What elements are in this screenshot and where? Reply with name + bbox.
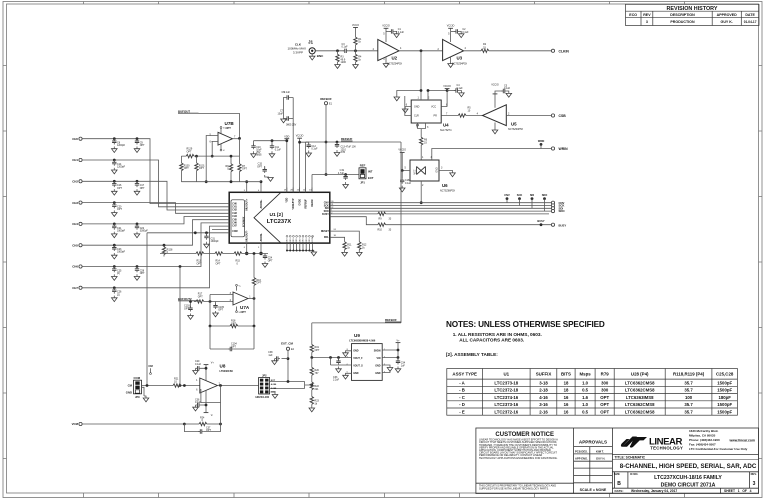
svg-text:NC7SZ66P5X: NC7SZ66P5X <box>440 190 455 193</box>
svg-text:DATE: DATE <box>745 13 755 17</box>
title cell <box>614 455 757 493</box>
svg-text:SDO: SDO <box>542 193 548 197</box>
capacitor C31 <box>204 233 219 248</box>
REFBUF wire to reference section <box>312 142 401 345</box>
svg-text:0.1uF: 0.1uF <box>504 87 511 90</box>
svg-text:3: 3 <box>753 481 756 487</box>
capacitor C1 <box>386 28 404 37</box>
wire J1 to C3 <box>315 50 344 52</box>
svg-text:35.7: 35.7 <box>684 380 693 385</box>
svg-text:REVISION HISTORY: REVISION HISTORY <box>667 6 718 12</box>
svg-text:VCCIO: VCCIO <box>382 25 390 28</box>
svg-text:OPT: OPT <box>206 429 211 432</box>
svg-text:CM: CM <box>148 364 153 368</box>
svg-text:CH0: CH0 <box>232 203 237 205</box>
svg-text:0805: 0805 <box>256 153 262 156</box>
wire U6 pin4 to WRIN <box>432 149 552 161</box>
svg-text:Wednesday, January 04, 2017: Wednesday, January 04, 2017 <box>631 489 677 493</box>
net label BUSY <box>537 219 544 226</box>
approvals block <box>575 440 607 493</box>
title block <box>476 428 759 494</box>
VCCIO flag and C12 <box>296 135 309 193</box>
svg-text:NOTES: UNLESS OTHERWISE SPECIF: NOTES: UNLESS OTHERWISE SPECIFIED <box>446 320 605 329</box>
svg-text:PCB DES.: PCB DES. <box>575 449 588 453</box>
svg-text:18: 18 <box>564 380 569 385</box>
svg-text:GND: GND <box>126 391 132 395</box>
svg-text:0.1uF: 0.1uF <box>284 91 291 94</box>
svg-text:NC7SZ04P5X: NC7SZ04P5X <box>452 62 467 65</box>
svg-text:16: 16 <box>564 409 569 414</box>
svg-text:LTC237XCUH-18/16 FAMILY: LTC237XCUH-18/16 FAMILY <box>654 475 722 481</box>
capacitor C16 <box>112 181 123 195</box>
inverter U3 <box>437 25 467 68</box>
svg-text:OPT: OPT <box>184 307 189 310</box>
resistor R14 <box>215 252 223 266</box>
svg-text:RDL: RDL <box>324 236 329 239</box>
svg-text:LTC2372-18: LTC2372-18 <box>494 388 518 393</box>
resistor R128 <box>162 244 173 257</box>
svg-text:OPT: OPT <box>231 345 236 348</box>
resistor R8 <box>226 155 233 183</box>
svg-text:PR: PR <box>434 115 438 118</box>
resistor R6 <box>420 137 428 160</box>
svg-text:GND: GND <box>353 350 359 353</box>
svg-text:TECHNOLOGY APPLICATIONS ENGINE: TECHNOLOGY APPLICATIONS ENGINEERING FOR … <box>479 456 558 460</box>
svg-text:CH3: CH3 <box>72 201 78 205</box>
svg-text:1uF: 1uF <box>268 354 273 357</box>
REFIN rail to JP1 <box>312 173 359 192</box>
U1 right pin numbers <box>331 201 333 214</box>
svg-text:PRODUCTION: PRODUCTION <box>670 20 695 24</box>
resistor R9 on 5th bus line <box>330 212 549 220</box>
RESET wire, resistor R12 <box>330 229 367 256</box>
svg-text:REF: REF <box>360 163 366 167</box>
long wire from channel network <box>179 267 181 386</box>
svg-text:GND: GND <box>375 365 381 368</box>
svg-text:OPT: OPT <box>140 272 145 275</box>
svg-text:LTC6362CMS8: LTC6362CMS8 <box>625 409 655 414</box>
net label BUFOUT2 <box>178 297 199 302</box>
connector J1 BNC <box>308 40 324 60</box>
svg-text:OPT: OPT <box>268 259 273 262</box>
U9 right gnd pins <box>382 365 393 373</box>
assembly table <box>447 369 738 416</box>
U1 pins 6,5 MUXOUT- ADCIN- <box>244 230 263 255</box>
channel input CH3 <box>72 201 229 214</box>
svg-text:0.1uF: 0.1uF <box>311 148 318 151</box>
svg-text:U9: U9 <box>354 333 360 338</box>
capacitor C104 feedback <box>210 326 254 351</box>
channel input CH5 <box>72 220 229 248</box>
svg-text:LTC237X: LTC237X <box>267 219 292 225</box>
svg-text:2-16: 2-16 <box>539 409 548 414</box>
svg-text:C25,C28: C25,C28 <box>716 372 734 377</box>
svg-text:SDI: SDI <box>530 193 535 197</box>
svg-text:GND: GND <box>375 372 381 375</box>
svg-text:U6: U6 <box>442 183 448 188</box>
svg-text:REFGND: REFGND <box>312 235 314 243</box>
svg-text:221: 221 <box>315 388 320 391</box>
capacitor C4 <box>454 84 464 97</box>
svg-text:EXT: EXT <box>368 176 374 180</box>
svg-text:U1: U1 <box>503 372 509 377</box>
svg-text:VCC: VCC <box>431 106 436 109</box>
svg-text:VCC: VCC <box>414 169 417 174</box>
capacitor C6 on VDDLBYP <box>281 91 293 192</box>
svg-text:ADCIN-: ADCIN- <box>260 233 263 242</box>
svg-text:CM: CM <box>128 384 133 388</box>
inverter U2 <box>373 25 403 68</box>
capacitor C103 <box>184 300 193 319</box>
svg-text:COM: COM <box>232 231 237 233</box>
svg-text:SHDN: SHDN <box>374 350 381 353</box>
svg-text:CH6: CH6 <box>232 223 237 225</box>
svg-text:16: 16 <box>564 395 569 400</box>
net label WRIN <box>538 140 545 149</box>
resistor R1 and VCCO flag <box>352 24 362 52</box>
svg-text:R118,R119 (P4): R118,R119 (P4) <box>673 372 705 377</box>
svg-text:1500pF: 1500pF <box>717 402 732 407</box>
gnd pin 6 of U4 <box>402 107 411 113</box>
U8 feedback loop <box>200 386 221 403</box>
svg-text:0.1uF: 0.1uF <box>398 31 405 34</box>
svg-text:V-: V- <box>223 150 225 152</box>
svg-text:GND: GND <box>436 167 439 173</box>
svg-text:10uF: 10uF <box>278 113 284 116</box>
svg-text:JP2: JP2 <box>262 373 267 377</box>
svg-text:U4: U4 <box>443 123 449 128</box>
ADCIN- rail <box>160 253 268 255</box>
svg-text:OPT: OPT <box>216 262 221 265</box>
resistor R15 <box>234 252 242 266</box>
svg-text:OPT: OPT <box>242 168 247 171</box>
svg-text:0.1uF: 0.1uF <box>457 87 464 90</box>
svg-text:CH7: CH7 <box>232 226 237 228</box>
capacitor C18 <box>399 171 411 192</box>
svg-text:35.7: 35.7 <box>684 409 693 414</box>
svg-text:[2]. ASSEMBLY TABLE:: [2]. ASSEMBLY TABLE: <box>446 352 498 357</box>
svg-text:ECO: ECO <box>629 13 637 17</box>
svg-text:KIM T.: KIM T. <box>596 449 604 453</box>
capacitor C37 <box>184 424 220 434</box>
svg-text:GND: GND <box>306 238 308 243</box>
svg-text:GUY H.: GUY H. <box>596 457 605 461</box>
svg-text:3-18: 3-18 <box>539 380 548 385</box>
U4 bottom pins to R6 <box>417 123 426 137</box>
svg-text:LTC6363IMS8: LTC6363IMS8 <box>626 395 654 400</box>
channel input CH1 <box>72 158 229 207</box>
feedback rail and resistor R129 <box>181 138 239 157</box>
svg-text:2-18: 2-18 <box>539 388 548 393</box>
svg-text:V-: V- <box>211 414 213 417</box>
svg-text:REV.: REV. <box>751 472 757 476</box>
capacitor C34 <box>395 358 406 373</box>
svg-text:3.3VPP: 3.3VPP <box>293 51 303 55</box>
capacitor C23 <box>112 245 126 259</box>
net stubs CNV SCK SDI SDO <box>504 193 547 211</box>
svg-text:- C: - C <box>459 395 465 400</box>
channel input CH6 <box>72 223 229 269</box>
svg-text:Msps: Msps <box>579 372 591 377</box>
svg-text:APPROVALS: APPROVALS <box>579 440 607 445</box>
svg-text:www.linear.com: www.linear.com <box>729 438 756 442</box>
capacitor C19 <box>338 169 349 188</box>
svg-text:47uF 10V: 47uF 10V <box>346 146 357 149</box>
svg-text:3300pF: 3300pF <box>140 229 149 232</box>
svg-text:OPT: OPT <box>231 322 236 325</box>
svg-text:U2: U2 <box>392 55 398 60</box>
clock input label <box>287 43 306 55</box>
svg-text:LTC2372-16: LTC2372-16 <box>494 409 518 414</box>
svg-text:BUSY: BUSY <box>537 219 544 223</box>
resistor R16 <box>252 252 262 298</box>
capacitor C13 <box>334 141 356 157</box>
svg-text:HD2X4-100: HD2X4-100 <box>256 395 270 399</box>
RDL wire, resistor R11 <box>330 235 352 256</box>
svg-text:CNV: CNV <box>504 193 510 197</box>
U7B input wires <box>205 136 214 184</box>
svg-text:EXT_CM: EXT_CM <box>281 342 293 346</box>
capacitor C25 <box>112 267 123 281</box>
svg-text:CH5: CH5 <box>232 219 237 221</box>
svg-text:GND: GND <box>353 372 359 375</box>
svg-text:R10: R10 <box>378 228 383 231</box>
svg-text:WRIN: WRIN <box>538 140 545 143</box>
svg-text:3: 3 <box>646 20 648 24</box>
svg-text:DESCRIPTION: DESCRIPTION <box>670 13 695 17</box>
svg-text:4-16: 4-16 <box>539 395 548 400</box>
op-amp U8 <box>196 363 258 393</box>
resistor R3 <box>335 49 347 68</box>
svg-text:ASSY TYPE: ASSY TYPE <box>452 372 477 377</box>
svg-text:LTC2373-18: LTC2373-18 <box>494 380 518 385</box>
svg-text:LTC6362CMS8: LTC6362CMS8 <box>625 380 655 385</box>
svg-text:MUXOUT+: MUXOUT+ <box>246 198 249 210</box>
svg-text:0.1uF: 0.1uF <box>405 182 412 185</box>
svg-text:0.1uF: 0.1uF <box>342 46 349 49</box>
svg-text:REFBUF: REFBUF <box>305 199 307 209</box>
svg-text:GND: GND <box>309 238 311 243</box>
svg-text:OPT: OPT <box>600 402 609 407</box>
svg-text:100: 100 <box>685 395 693 400</box>
resistor R22 <box>310 382 319 397</box>
svg-text:LTC2373-16: LTC2373-16 <box>494 402 518 407</box>
svg-text:CH1: CH1 <box>232 207 237 209</box>
terminal BUSY <box>551 223 566 227</box>
svg-text:WRIN: WRIN <box>559 147 569 151</box>
capacitor C7 <box>278 110 297 127</box>
svg-text:VIN: VIN <box>377 357 381 360</box>
svg-text:OPT: OPT <box>199 167 204 170</box>
svg-text:OPT: OPT <box>117 208 122 211</box>
svg-text:1200pF: 1200pF <box>117 144 126 147</box>
wire clock into U4 pin1, VCCIO wire over U4 <box>394 89 447 107</box>
capacitor C24 <box>262 254 273 268</box>
svg-text:OPT: OPT <box>218 309 223 312</box>
svg-text:NC7SZ04P5X: NC7SZ04P5X <box>387 62 402 65</box>
svg-text:3300pF: 3300pF <box>117 251 126 254</box>
capacitor C22 <box>134 224 148 238</box>
svg-text:BNC: BNC <box>317 54 324 58</box>
BUSY wire with resistor R10 <box>330 217 552 232</box>
header JP2 HD2X4-100 <box>256 373 278 399</box>
svg-text:GND: GND <box>299 238 301 243</box>
jumper JP1 REF INT/EXT <box>359 163 374 184</box>
svg-text:U28 (P4): U28 (P4) <box>631 372 649 377</box>
V+ flag at U9 <box>382 339 400 359</box>
svg-text:OPT: OPT <box>197 262 202 265</box>
capacitor C38 <box>268 351 288 364</box>
svg-text:GND: GND <box>303 238 305 243</box>
svg-text:180pF: 180pF <box>718 395 731 400</box>
svg-text:CH4: CH4 <box>232 215 237 218</box>
svg-text:OPT: OPT <box>198 296 203 299</box>
ADC U1 LTC237X <box>229 192 330 243</box>
svg-text:VCCIO: VCCIO <box>398 149 406 152</box>
svg-text:VCCIO: VCCIO <box>443 85 451 88</box>
resistor R130 <box>180 156 190 182</box>
svg-text:GND: GND <box>290 238 292 243</box>
U1 pins 3,4 MUXOUT+ ADCIN+ <box>244 180 263 210</box>
svg-text:[2]: [2] <box>117 272 120 275</box>
svg-text:IC NO.: IC NO. <box>630 472 638 476</box>
svg-text:CUSTOMER NOTICE: CUSTOMER NOTICE <box>495 432 554 438</box>
ADCIN+ rail <box>181 181 261 183</box>
resistor R20 <box>310 358 319 383</box>
svg-text:CH2: CH2 <box>232 210 237 212</box>
svg-text:8-CHANNEL, HIGH SPEED, SERIAL,: 8-CHANNEL, HIGH SPEED, SERIAL, SAR, ADC <box>620 463 757 470</box>
capacitor C15 <box>257 163 273 182</box>
terminals CNV SCK SDI SDO <box>551 201 565 213</box>
jumper JP9 COM/CM/GND <box>126 376 149 402</box>
svg-text:18: 18 <box>564 388 569 393</box>
svg-text:X7R: X7R <box>341 151 346 154</box>
capacitor C12 <box>306 143 318 157</box>
svg-text:Phone: (408)432-1900: Phone: (408)432-1900 <box>689 438 720 442</box>
resistor R131 <box>195 156 205 182</box>
svg-text:EXT: EXT <box>271 380 276 382</box>
svg-text:REFBUF: REFBUF <box>320 97 332 101</box>
channel input CH2 <box>72 180 229 211</box>
svg-text:U7A: U7A <box>240 305 250 310</box>
svg-text:35.7: 35.7 <box>684 402 693 407</box>
net stub CM <box>148 364 153 374</box>
svg-text:U7B: U7B <box>225 121 235 126</box>
VOUT_S rail <box>331 358 352 366</box>
svg-text:VCCO: VCCO <box>352 24 359 27</box>
svg-text:CLR: CLR <box>414 115 419 118</box>
customer notice <box>479 432 558 491</box>
svg-text:SIZE: SIZE <box>614 472 620 476</box>
svg-text:SCK: SCK <box>517 193 523 197</box>
resistor R17 <box>196 293 233 303</box>
capacitor C20 <box>112 203 123 217</box>
svg-text:4.096: 4.096 <box>271 383 277 386</box>
bus wires CNV SCK SDI SDO <box>330 203 552 211</box>
svg-text:BUSY: BUSY <box>322 213 329 216</box>
channel input CH7 <box>72 226 229 290</box>
svg-text:SUPPLIED FOR USE WITH LINEAR T: SUPPLIED FOR USE WITH LINEAR TECHNOLOGY … <box>479 486 549 490</box>
capacitor C2 <box>451 28 469 37</box>
svg-text:JP1: JP1 <box>360 180 365 184</box>
svg-text:1. ALL RESISTORS ARE IN OHMS,: 1. ALL RESISTORS ARE IN OHMS, 0603. <box>453 332 542 337</box>
svg-text:1500pF: 1500pF <box>717 380 732 385</box>
resistor R24 <box>183 403 222 426</box>
Linear Technology logo <box>621 437 683 451</box>
VDD flag and rail <box>254 135 290 192</box>
svg-text:U3: U3 <box>457 55 463 60</box>
svg-text:NC7SZ04P5X: NC7SZ04P5X <box>508 128 523 131</box>
terminal CSB <box>551 114 566 118</box>
svg-text:- B: - B <box>459 388 465 393</box>
resistor R19 <box>310 345 320 358</box>
svg-text:01-04-17: 01-04-17 <box>744 20 757 24</box>
V+ flag and capacitor C20 <box>193 360 215 381</box>
svg-text:1500pF: 1500pF <box>717 388 732 393</box>
terminal VCM <box>72 422 185 426</box>
svg-text:OPT: OPT <box>140 144 145 147</box>
resistor R21 <box>173 378 200 388</box>
svg-text:TITLE: SCHEMATIC: TITLE: SCHEMATIC <box>615 455 646 459</box>
svg-text:NL17SZ74: NL17SZ74 <box>440 129 452 132</box>
svg-text:LTC6362CMS8: LTC6362CMS8 <box>625 402 655 407</box>
wire JP9 to R21 <box>142 384 182 387</box>
flip-flop U4 <box>406 97 452 132</box>
resistor R13 <box>196 252 204 266</box>
capacitor C5 <box>501 84 511 97</box>
svg-text:OPT: OPT <box>187 150 192 153</box>
capacitor C10 <box>251 141 262 158</box>
svg-text:VCM: VCM <box>72 422 79 426</box>
wire U2 to U3 <box>399 50 443 52</box>
svg-text:APPROVED: APPROVED <box>717 13 738 17</box>
svg-text:OPT: OPT <box>226 126 232 130</box>
address block <box>689 429 755 451</box>
capacitor C14 <box>112 160 126 174</box>
svg-text:ALL CAPACITORS ARE 0603.: ALL CAPACITORS ARE 0603. <box>459 338 524 343</box>
JP2 to divider wires <box>270 382 312 389</box>
notes text <box>446 320 605 357</box>
svg-text:INT: INT <box>368 170 373 174</box>
regulator U9 LTC6655 <box>347 333 386 380</box>
svg-text:OPT: OPT <box>600 409 609 414</box>
channel input CH4 <box>72 217 229 227</box>
wire U6 pin2 down to CNV bus <box>420 181 423 204</box>
svg-text:MUXOUT-: MUXOUT- <box>246 230 249 241</box>
svg-text:1.6: 1.6 <box>582 395 589 400</box>
capacitor C21 <box>112 224 126 238</box>
svg-text:ADCIN+: ADCIN+ <box>260 199 263 209</box>
svg-text:SCALE = NONE: SCALE = NONE <box>580 488 607 492</box>
svg-text:CH6: CH6 <box>72 265 78 269</box>
VCCIO flag U6 <box>398 149 410 172</box>
svg-text:BUSY: BUSY <box>559 223 567 227</box>
svg-text:0.5: 0.5 <box>582 388 589 393</box>
svg-text:J1: J1 <box>308 40 314 45</box>
svg-text:- D: - D <box>459 402 465 407</box>
COM wire to mux <box>147 230 229 386</box>
test point E1 REFBUF <box>320 97 332 176</box>
capacitor C3 <box>342 43 349 53</box>
svg-text:0.5: 0.5 <box>582 409 589 414</box>
svg-text:300: 300 <box>601 388 609 393</box>
resistor R23 <box>309 397 320 412</box>
svg-text:OPT: OPT <box>241 310 247 314</box>
op-amp U7A <box>210 284 255 314</box>
svg-text:1500pF: 1500pF <box>717 409 732 414</box>
svg-text:3-16: 3-16 <box>539 402 548 407</box>
V- flag and capacitor C36 <box>193 390 214 417</box>
